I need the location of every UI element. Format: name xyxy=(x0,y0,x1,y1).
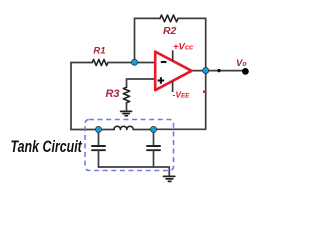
svg-text:Vo: Vo xyxy=(236,58,247,69)
svg-text:-VEE: -VEE xyxy=(173,90,191,100)
node A junction dot (inverting input) xyxy=(132,59,138,65)
wire R1 input horizontal xyxy=(71,15,243,176)
ground (R3) xyxy=(121,111,132,115)
svg-text:R3: R3 xyxy=(105,88,119,100)
svg-text:R2: R2 xyxy=(163,25,177,37)
op-amp U1 xyxy=(155,52,191,91)
output node junction dot xyxy=(203,68,209,74)
wire output node down to tank xyxy=(154,71,206,130)
wire feedback right vertical down to output node xyxy=(205,18,207,70)
stray red mark xyxy=(203,91,205,93)
wire left vertical (input column) xyxy=(70,63,72,130)
op-amp +Vcc pin stub xyxy=(172,50,174,61)
wire R1 to node A xyxy=(108,62,135,64)
capacitor C2 bottom lead xyxy=(153,151,155,168)
Vo terminal dot xyxy=(242,68,249,75)
small black dot on output wire xyxy=(217,69,220,72)
tank left junction dot xyxy=(96,126,102,132)
svg-text:Tank Circuit: Tank Circuit xyxy=(11,138,83,156)
wire non-inverting input to R3 top xyxy=(127,79,156,87)
wire tank top left segment xyxy=(71,129,114,131)
capacitor C1 plates xyxy=(92,146,105,150)
wire R3 to ground xyxy=(126,103,128,111)
resistor R1 xyxy=(92,59,108,65)
capacitor C2 plates xyxy=(147,146,160,150)
tank circuit dashed box xyxy=(85,120,174,171)
capacitor C1 top lead xyxy=(98,130,100,146)
inductor L1 xyxy=(114,126,133,129)
wire feedback left vertical xyxy=(134,18,136,62)
wire tank top right segment xyxy=(133,129,153,131)
resistor R2 xyxy=(160,15,178,22)
wire tank bottom xyxy=(99,167,170,176)
resistor R3 xyxy=(123,87,129,102)
svg-text:+Vcc: +Vcc xyxy=(173,42,194,53)
op-amp -Vee pin stub xyxy=(172,81,174,92)
wire feedback top right segment xyxy=(178,17,206,19)
op-amp minus sign xyxy=(161,61,167,63)
capacitor C2 top lead xyxy=(153,130,155,146)
capacitor C1 bottom lead xyxy=(98,151,100,168)
svg-text:R1: R1 xyxy=(93,46,105,57)
tank right junction dot xyxy=(151,126,157,132)
wire feedback top left segment xyxy=(135,17,161,19)
wire op-amp output to Vo xyxy=(192,70,244,72)
wire node A to op-amp inverting input xyxy=(135,62,156,64)
ground (tank circuit) xyxy=(164,176,175,181)
op-amp plus sign xyxy=(158,77,165,84)
